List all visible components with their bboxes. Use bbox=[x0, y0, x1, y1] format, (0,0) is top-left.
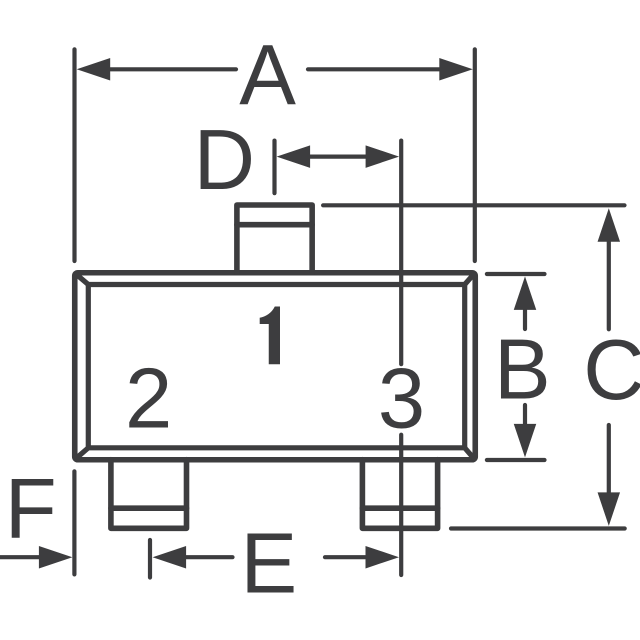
arrowhead C down bbox=[598, 492, 621, 526]
svg-text:3: 3 bbox=[378, 351, 425, 446]
svg-text:C: C bbox=[583, 323, 640, 418]
pin 2 lead outline bbox=[111, 460, 187, 529]
dimension C lower arrow shaft bbox=[607, 425, 611, 492]
pin 2 lead inner line bbox=[111, 505, 187, 511]
dimension D extension line (through pin 3 centre, upper part) bbox=[399, 141, 403, 365]
dimension B top tick bbox=[487, 272, 545, 276]
arrowhead D right bbox=[366, 145, 400, 168]
dimension A left extension line bbox=[72, 49, 76, 261]
arrowhead A right bbox=[439, 58, 473, 81]
dimension D left tick bbox=[272, 141, 276, 194]
dimension C upper arrow shaft bbox=[607, 242, 611, 329]
dimension E line right segment bbox=[325, 555, 366, 559]
svg-text:F: F bbox=[5, 462, 57, 557]
dimension F extension line bbox=[72, 471, 76, 574]
svg-text:E: E bbox=[241, 516, 298, 611]
corner bevel bottom-right bbox=[465, 448, 474, 458]
dimension C top extension line (from tab top) bbox=[323, 203, 624, 207]
dimension E line left segment bbox=[186, 555, 232, 559]
dimension B bottom tick bbox=[487, 458, 545, 462]
dimension D extension line (through pin 3 centre, lower part) bbox=[399, 435, 403, 575]
corner bevel bottom-left bbox=[77, 448, 89, 458]
dimension F line bbox=[0, 555, 39, 559]
dimension A line right segment bbox=[308, 67, 439, 71]
svg-text:D: D bbox=[194, 113, 255, 208]
arrowhead E right bbox=[366, 546, 400, 569]
svg-text:B: B bbox=[494, 323, 551, 418]
arrowhead B down bbox=[514, 424, 537, 458]
top tab inner line bbox=[237, 222, 312, 228]
corner bevel top-left bbox=[77, 275, 89, 285]
package body inner outline bbox=[88, 285, 464, 448]
arrowhead E left bbox=[153, 546, 187, 569]
pin 3 lead inner line bbox=[362, 505, 437, 511]
corner bevel top-right bbox=[465, 275, 474, 285]
dimension A line left segment bbox=[110, 67, 236, 71]
pin 3 lead outline bbox=[362, 460, 437, 529]
arrowhead A left bbox=[77, 58, 111, 81]
dimension E left tick (pin 2 centre) bbox=[148, 540, 152, 578]
arrowhead C up bbox=[598, 208, 621, 242]
package body outer outline bbox=[75, 273, 476, 460]
arrowhead F right bbox=[39, 546, 73, 569]
dimension D line bbox=[310, 155, 366, 159]
arrowhead B up bbox=[514, 276, 537, 310]
dimension B lower arrow shaft bbox=[523, 405, 527, 424]
dimension A right extension line bbox=[473, 49, 477, 261]
svg-text:2: 2 bbox=[125, 351, 172, 446]
dimension C bottom extension line (from pin bottom) bbox=[451, 526, 625, 530]
top tab (pin lead) outline bbox=[237, 205, 312, 273]
dimension B upper arrow shaft bbox=[523, 310, 527, 329]
arrowhead D left bbox=[277, 145, 311, 168]
svg-text:A: A bbox=[239, 28, 296, 123]
pin number 1 bbox=[260, 307, 280, 365]
